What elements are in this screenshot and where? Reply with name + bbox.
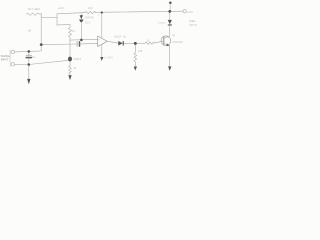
svg-text:SIGNAL: SIGNAL: [1, 54, 11, 58]
op-amp V- supply wire down: [101, 45, 103, 58]
capacitor C1 bottom plate: [26, 57, 31, 59]
transistor Q1 emitter stroke: [164, 43, 170, 66]
ground arrow emitter: [168, 66, 171, 71]
diode D3 top lead from rail: [169, 11, 171, 20]
supply stub above rail: [169, 3, 171, 11]
wire top rail right segment: [95, 11, 183, 12]
wire vertical x=41 inverting node: [40, 14, 42, 45]
wire divider column down to node: [69, 40, 71, 59]
junction dot zener bottom: [80, 20, 83, 23]
input jack bracket: [9, 50, 11, 66]
junction dot at inverting node: [40, 43, 43, 46]
junction dot reference node: [80, 39, 83, 42]
junction dot divider mid node: [68, 57, 72, 62]
svg-text:1M: 1M: [28, 29, 32, 33]
ground arrow input node lead: [28, 65, 30, 80]
wire zener node down to non-inverting wire: [80, 21, 82, 40]
svg-text:1K: 1K: [72, 29, 75, 33]
svg-text:1N4739: 1N4739: [85, 15, 95, 19]
svg-text:(-) 12 V: (-) 12 V: [104, 56, 113, 60]
wire vertical x=57 rail start down to divider jog: [56, 14, 58, 25]
wire top rail left segment: [57, 13, 85, 14]
wire input signal: [15, 45, 42, 52]
junction dot op-amp V+ on rail: [101, 11, 103, 13]
op-amp V+ supply wire to rail: [101, 12, 103, 38]
resistor R3 (divider top, vertical): [69, 25, 72, 40]
svg-text:100: 100: [88, 6, 93, 10]
capacitor C2 plate 1: [76, 42, 78, 47]
wire from R2 right end down to jog: [41, 14, 57, 18]
ground arrow input node: [27, 79, 30, 84]
resistor R2 (top-left, horizontal): [26, 13, 41, 16]
resistor R1 (inline in rail): [85, 11, 96, 13]
svg-text:-: -: [98, 43, 99, 46]
wire C2 to op-amp inverting pin: [80, 43, 97, 45]
junction dot output node: [134, 42, 137, 45]
wire op-amp output: [107, 41, 118, 43]
wire node to lower resistor: [69, 59, 71, 66]
svg-text:TEXT): TEXT): [189, 23, 197, 27]
junction dot C1 top: [28, 50, 31, 53]
zener diode D2 lead from rail: [80, 14, 82, 16]
supply stub terminal dot: [169, 1, 172, 4]
wire junction to base resistor: [135, 42, 145, 44]
transistor Q1 circle: [161, 36, 171, 46]
wire diode D1 cathode to junction: [123, 42, 135, 44]
zener diode D2 cathode bar: [79, 19, 83, 20]
svg-text:10K: 10K: [138, 49, 143, 53]
capacitor C1 top plate: [26, 54, 31, 56]
wire non-inverting input: [70, 38, 98, 41]
op-amp U1 triangle: [98, 36, 108, 47]
wire jog to divider column: [57, 24, 70, 26]
capacitor C1 top lead: [28, 51, 30, 55]
ground arrow op-amp V-: [100, 57, 103, 61]
input terminal circle (ground): [11, 63, 14, 66]
svg-text:INPUT: INPUT: [1, 58, 9, 62]
ground arrow pull-down resistor: [134, 67, 137, 71]
capacitor C1 bottom lead: [28, 59, 30, 65]
svg-text:Q1: Q1: [172, 34, 176, 37]
svg-text:1N4001: 1N4001: [158, 22, 166, 24]
transistor Q1 emitter arrowhead: [167, 43, 170, 46]
svg-text:+12V: +12V: [187, 10, 193, 14]
svg-text:1N914 D1: 1N914 D1: [114, 34, 127, 38]
resistor R6 (pull-down, vertical): [134, 53, 137, 67]
diode D1 body: [118, 41, 122, 46]
svg-text:9.1V: 9.1V: [85, 20, 91, 24]
ground arrow divider: [68, 75, 71, 80]
svg-text:C1: C1: [32, 55, 36, 59]
battery terminal circle at rail end: [183, 10, 186, 13]
diode D3 cathode bar: [168, 24, 172, 25]
resistor R4 (divider bottom, vertical): [69, 66, 72, 76]
transistor Q1 base stub: [161, 40, 163, 42]
svg-text:1N914: 1N914: [73, 57, 81, 61]
diode D1 cathode bar: [123, 41, 124, 46]
svg-text:2N2222A: 2N2222A: [172, 40, 183, 44]
wire inverting input: [41, 43, 76, 46]
diode D3 body: [168, 20, 172, 24]
svg-text:R2 1 MEG: R2 1 MEG: [28, 7, 40, 11]
junction dot C1 bottom: [28, 63, 31, 66]
svg-text:1K: 1K: [73, 66, 76, 70]
svg-text:+12V: +12V: [58, 6, 64, 10]
capacitor C2 plate 2: [79, 42, 81, 46]
svg-text:1K: 1K: [147, 39, 150, 43]
resistor R5 (base, horizontal): [145, 42, 154, 45]
wire base resistor to transistor base: [155, 41, 162, 43]
zener diode D2 body: [80, 15, 83, 19]
transistor Q1 base bar: [163, 37, 165, 45]
transistor Q1 collector stroke: [164, 25, 170, 38]
svg-text:7: 7: [98, 15, 100, 18]
wire pull-down column below junction: [134, 43, 136, 52]
wire input ground return: [15, 60, 71, 64]
input terminal circle (signal): [11, 50, 14, 53]
svg-text:+: +: [98, 39, 100, 42]
junction dot collector column on rail: [168, 10, 171, 13]
